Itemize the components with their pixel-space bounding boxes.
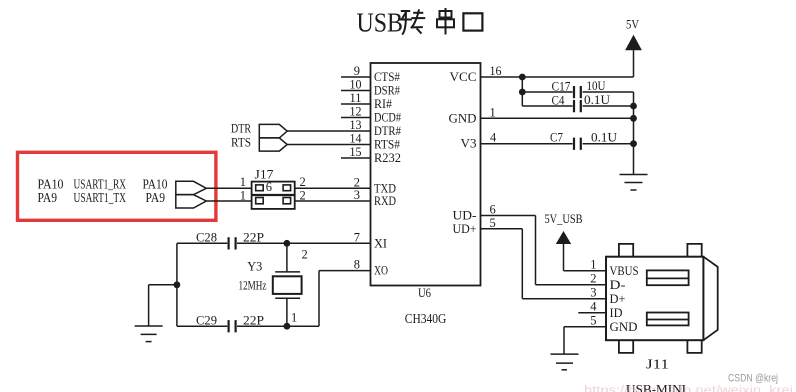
svg-text:C28: C28 (196, 230, 217, 244)
svg-text:U6: U6 (418, 286, 431, 300)
svg-text:RTS: RTS (231, 135, 251, 149)
svg-text:10: 10 (350, 78, 362, 92)
svg-text:2: 2 (302, 248, 308, 262)
svg-text:USB-MINI: USB-MINI (626, 382, 686, 392)
svg-text:VBUS: VBUS (610, 264, 639, 278)
svg-text:15: 15 (350, 145, 362, 159)
svg-text:10U: 10U (587, 79, 606, 93)
svg-text:DCD#: DCD# (374, 111, 402, 125)
svg-text:DSR#: DSR# (374, 84, 401, 98)
svg-text:D-: D- (610, 278, 626, 292)
svg-text:3: 3 (590, 286, 596, 300)
svg-text:2: 2 (300, 175, 306, 189)
svg-text:1: 1 (490, 105, 496, 119)
svg-text:RXD: RXD (374, 194, 396, 208)
svg-text:2: 2 (300, 189, 306, 203)
svg-text:ID: ID (610, 306, 623, 320)
svg-text:5V: 5V (626, 18, 639, 32)
svg-text:5: 5 (590, 314, 596, 328)
svg-text:D+: D+ (610, 292, 626, 306)
svg-text:UD-: UD- (453, 209, 477, 223)
svg-text:CH340G: CH340G (405, 312, 447, 327)
svg-text:1: 1 (240, 189, 246, 203)
svg-text:UD+: UD+ (453, 222, 477, 236)
svg-text:22P: 22P (243, 314, 264, 328)
svg-text:J11: J11 (646, 358, 669, 373)
svg-text:14: 14 (350, 132, 363, 146)
svg-text:GND: GND (449, 111, 477, 125)
svg-text:V3: V3 (461, 137, 477, 151)
svg-text:22P: 22P (243, 230, 264, 244)
svg-text:R232: R232 (374, 151, 401, 165)
svg-text:3: 3 (354, 188, 360, 202)
svg-text:RTS#: RTS# (374, 138, 401, 152)
svg-text:1: 1 (590, 258, 596, 272)
svg-text:2: 2 (590, 272, 596, 286)
svg-text:11: 11 (350, 91, 362, 105)
svg-text:VCC: VCC (450, 70, 477, 84)
svg-text:GND: GND (610, 320, 638, 334)
svg-text:CSDN @krej: CSDN @krej (728, 373, 778, 385)
svg-text:PA9: PA9 (146, 191, 166, 206)
svg-text:12MHz: 12MHz (239, 279, 267, 293)
svg-text:XO: XO (374, 264, 388, 278)
svg-text:8: 8 (354, 258, 360, 272)
svg-text:C29: C29 (196, 314, 217, 328)
svg-text:USB: USB (357, 7, 404, 38)
svg-text:1: 1 (240, 175, 246, 189)
svg-text:PA9: PA9 (38, 191, 58, 206)
svg-text:DTR: DTR (231, 121, 252, 135)
svg-text:5V_USB: 5V_USB (545, 212, 583, 226)
svg-text:0.1U: 0.1U (584, 93, 610, 107)
svg-text:DTR#: DTR# (374, 124, 402, 138)
svg-text:C17: C17 (552, 80, 571, 94)
svg-text:6: 6 (266, 180, 272, 194)
svg-text:USART1_TX: USART1_TX (74, 191, 127, 206)
svg-text:C4: C4 (552, 94, 566, 108)
svg-text:7: 7 (354, 230, 360, 244)
svg-text:0.1U: 0.1U (591, 130, 617, 144)
svg-text:4: 4 (590, 300, 597, 314)
svg-text:13: 13 (350, 118, 362, 132)
svg-text:https://blog.csdn.net/weixin_k: https://blog.csdn.net/weixin_krej (584, 385, 793, 392)
svg-text:Y3: Y3 (247, 260, 262, 274)
svg-text:12: 12 (350, 105, 362, 119)
svg-text:1: 1 (291, 311, 297, 325)
svg-text:6: 6 (490, 203, 496, 217)
svg-text:5: 5 (490, 216, 496, 230)
svg-text:9: 9 (354, 64, 360, 78)
svg-text:RI#: RI# (374, 97, 393, 111)
svg-text:CTS#: CTS# (374, 70, 401, 84)
svg-text:16: 16 (490, 64, 502, 78)
svg-text:XI: XI (374, 236, 387, 250)
svg-text:C7: C7 (550, 130, 563, 144)
svg-text:4: 4 (490, 131, 497, 145)
